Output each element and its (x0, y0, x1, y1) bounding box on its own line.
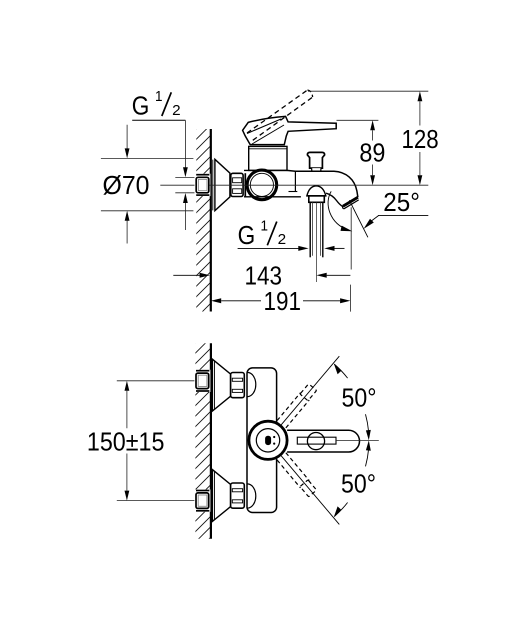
wall union square fitting (G1/2 connection) (195, 174, 211, 196)
svg-text:G: G (238, 220, 256, 250)
lower escutcheon cone (plan) (212, 470, 230, 522)
svg-text:89: 89 (359, 137, 385, 167)
dimension 143 (173, 274, 200, 276)
body left edge (244, 173, 246, 196)
G1/2 leader with right arrow (238, 247, 299, 249)
spout top contour (287, 170, 358, 197)
wall hatching (top view) (193, 109, 216, 332)
dashed lever (lower 50° position) (277, 453, 317, 497)
spout outlet aerator (25° face) (343, 197, 358, 206)
G1/2 dimension up arrow with tail (183, 193, 188, 203)
extension line square bottom (175, 192, 196, 194)
union nut (knurled) (231, 173, 243, 196)
lower union nut (plan) (231, 483, 245, 508)
svg-text:50°: 50° (341, 468, 376, 498)
dimension 150±15 extension lines (117, 380, 196, 382)
svg-text:150±15: 150±15 (87, 427, 164, 457)
25° inclined ray (349, 200, 368, 237)
svg-text:Ø70: Ø70 (103, 170, 150, 200)
25° arc arrow (341, 226, 353, 232)
lower inlet bulge (247, 484, 255, 508)
shower outlet collar (309, 196, 325, 202)
spout root underside (289, 191, 298, 193)
dimension 89 (370, 120, 375, 130)
25° vertical reference ray (350, 207, 352, 269)
svg-text:50°: 50° (342, 383, 377, 413)
dimension 150±15 (125, 381, 130, 391)
faucet body (plan) (247, 368, 277, 513)
dimension Ø70 extension top (101, 157, 193, 159)
svg-text:2: 2 (278, 231, 287, 248)
25° angle arc (328, 191, 348, 230)
25° leader arrow (364, 219, 374, 229)
svg-text:1: 1 (261, 217, 269, 234)
upper escutcheon cone (plan) (212, 359, 230, 411)
diverter knob (307, 152, 324, 168)
50° swing rays (281, 356, 339, 425)
cartridge housing (249, 146, 287, 170)
lever centerline (336, 440, 379, 442)
svg-text:191: 191 (264, 286, 302, 316)
shower pipe centerline / extension (315, 202, 317, 282)
dimension 128 (418, 91, 423, 101)
dashed lever (upper 50° position) (277, 383, 317, 427)
G1/2 dimension vertical with down arrow (184, 120, 186, 168)
spout bottom curve (326, 193, 343, 207)
wall face line (top view) (210, 129, 212, 312)
svg-text:2: 2 (172, 102, 181, 119)
body boss circle (bold) (247, 170, 277, 200)
lever inner contour (297, 437, 336, 444)
upper 50° angle arc segments and arrows (334, 364, 347, 378)
spout root boundary (294, 171, 296, 192)
dimension 191 (211, 298, 221, 303)
svg-text:G: G (132, 91, 150, 121)
25° leader line (378, 214, 428, 216)
escutcheon cone (side view) (215, 159, 230, 210)
extension line square top (175, 176, 196, 178)
svg-text:25°: 25° (383, 187, 420, 217)
wall hatching (bottom view) (192, 322, 216, 556)
wall face line (bottom view) (210, 343, 212, 538)
svg-text:128: 128 (402, 124, 439, 154)
lever grip circle (307, 433, 324, 450)
shower pipe (309, 202, 311, 257)
dimension Ø70 extension bottom (101, 210, 193, 212)
lever cap with handle (solid position) (243, 116, 337, 144)
dimension 89 extension line (337, 119, 379, 121)
lever dashed (raised position) (247, 90, 308, 133)
upper inlet bulge (247, 372, 255, 396)
Ø70 down arrow (126, 125, 128, 149)
shower outlet boss dome (307, 186, 326, 196)
svg-text:1: 1 (155, 88, 163, 105)
191 extension line (spout tip) (350, 285, 352, 312)
body tube top edge (244, 169, 287, 171)
leader line under G 1/2 (132, 119, 185, 121)
hub keyhole mark (265, 436, 271, 445)
dimension 128 extension line (308, 90, 428, 92)
lever cap ridge line (247, 119, 281, 134)
Ø70 up arrow (125, 211, 130, 221)
G1/2 left-pointing arrow with tail (324, 246, 334, 251)
body tube bottom edge (244, 196, 301, 198)
lower 50° angle arc segments and arrows (334, 503, 347, 517)
upper union nut (plan) (231, 373, 245, 398)
upper wall square fitting (194, 370, 210, 392)
handle hub inner circle (256, 429, 279, 452)
handle hub ring (bold) (249, 421, 287, 459)
lower wall square fitting (194, 490, 210, 512)
lever (solid, plan) (287, 430, 359, 452)
body boss inner circle (250, 173, 273, 196)
centerline (axis) right segment (209, 184, 428, 186)
centerline (axis) left segment (160, 184, 196, 186)
